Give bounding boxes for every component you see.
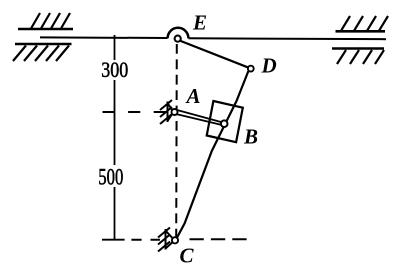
svg-text:D: D (261, 54, 277, 78)
svg-text:A: A (185, 84, 201, 108)
svg-text:500: 500 (98, 165, 123, 190)
svg-text:300: 300 (101, 57, 128, 82)
svg-text:C: C (180, 244, 195, 265)
svg-text:B: B (243, 125, 258, 149)
svg-text:E: E (192, 11, 207, 35)
